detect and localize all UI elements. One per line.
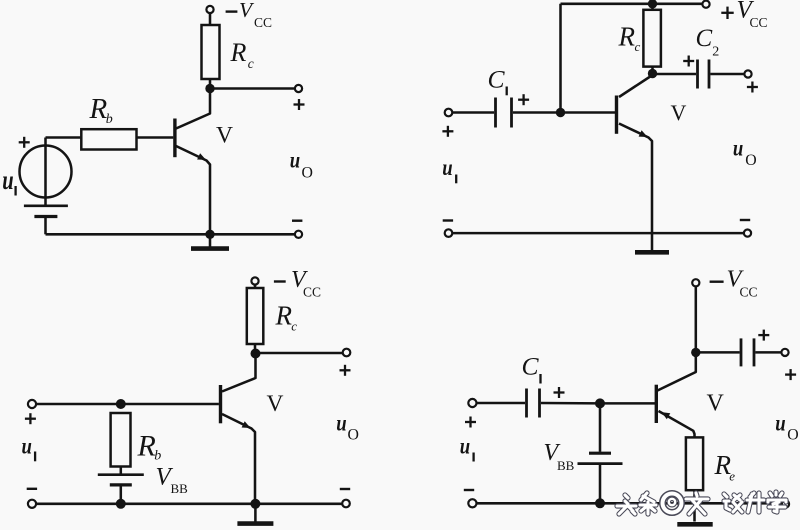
svg-text:u: u: [22, 434, 32, 460]
svg-text:O: O: [348, 427, 359, 444]
svg-text:C: C: [696, 25, 713, 52]
svg-text:c: c: [635, 39, 641, 54]
svg-text:O: O: [302, 165, 313, 182]
svg-text:C: C: [488, 65, 506, 94]
svg-text:R: R: [230, 38, 247, 67]
svg-text:b: b: [106, 112, 113, 127]
svg-text:BB: BB: [557, 458, 575, 473]
svg-text:c: c: [248, 56, 254, 71]
svg-text:CC: CC: [254, 15, 272, 30]
svg-text:R: R: [137, 429, 156, 462]
svg-text:V: V: [267, 391, 284, 417]
svg-text:O: O: [787, 427, 798, 444]
svg-text:V: V: [707, 391, 725, 417]
svg-text:u: u: [2, 164, 13, 195]
svg-text:u: u: [442, 155, 452, 181]
svg-text:2: 2: [712, 45, 719, 60]
svg-text:O: O: [745, 152, 756, 169]
svg-text:u: u: [336, 411, 346, 437]
svg-text:V: V: [216, 122, 233, 148]
svg-text:u: u: [733, 136, 743, 162]
svg-text:BB: BB: [171, 481, 189, 496]
svg-text:u: u: [775, 411, 785, 437]
svg-text:c: c: [291, 319, 297, 334]
svg-text:CC: CC: [740, 285, 758, 300]
svg-text:u: u: [290, 148, 300, 174]
svg-text:V: V: [671, 100, 687, 125]
svg-text:e: e: [729, 469, 735, 484]
svg-text:R: R: [618, 21, 636, 51]
svg-text:R: R: [275, 300, 293, 330]
svg-text:CC: CC: [303, 285, 321, 300]
svg-text:b: b: [154, 449, 161, 464]
svg-text:C: C: [522, 352, 540, 381]
svg-text:CC: CC: [750, 15, 768, 30]
svg-text:R: R: [89, 93, 108, 125]
svg-text:u: u: [460, 433, 470, 459]
